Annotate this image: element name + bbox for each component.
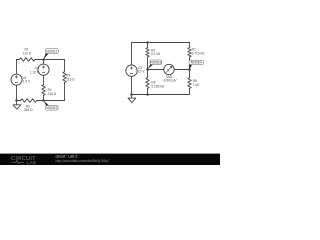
svg-text:http://circuitlab.com/c4s98b2y: http://circuitlab.com/c4s98b2y766y7 (56, 159, 110, 163)
svg-text:216 Ω: 216 Ω (48, 92, 57, 96)
svg-text:110 Ω: 110 Ω (23, 52, 32, 56)
svg-text:LAB: LAB (27, 160, 37, 165)
svg-text:5.266 kΩ: 5.266 kΩ (151, 84, 164, 88)
svg-text:4.1 kΩ: 4.1 kΩ (151, 52, 161, 56)
svg-text:316 Ω: 316 Ω (24, 108, 33, 112)
svg-text:10 V: 10 V (138, 70, 145, 74)
svg-text:5.716 kΩ: 5.716 kΩ (192, 51, 205, 55)
svg-text:NODE1: NODE1 (46, 49, 57, 53)
svg-text:1.16 V: 1.16 V (30, 70, 40, 74)
svg-text:7 kΩ: 7 kΩ (193, 83, 200, 87)
svg-text:NODE2: NODE2 (46, 106, 57, 110)
svg-text:circuit : Lab 2: circuit : Lab 2 (56, 154, 78, 158)
svg-text:NODE4: NODE4 (191, 61, 202, 65)
svg-text:NODE3: NODE3 (150, 60, 161, 64)
svg-text:1.5 V: 1.5 V (23, 79, 31, 83)
svg-text:-9.903 µV: -9.903 µV (163, 79, 178, 83)
svg-text:116 Ω: 116 Ω (66, 77, 75, 81)
